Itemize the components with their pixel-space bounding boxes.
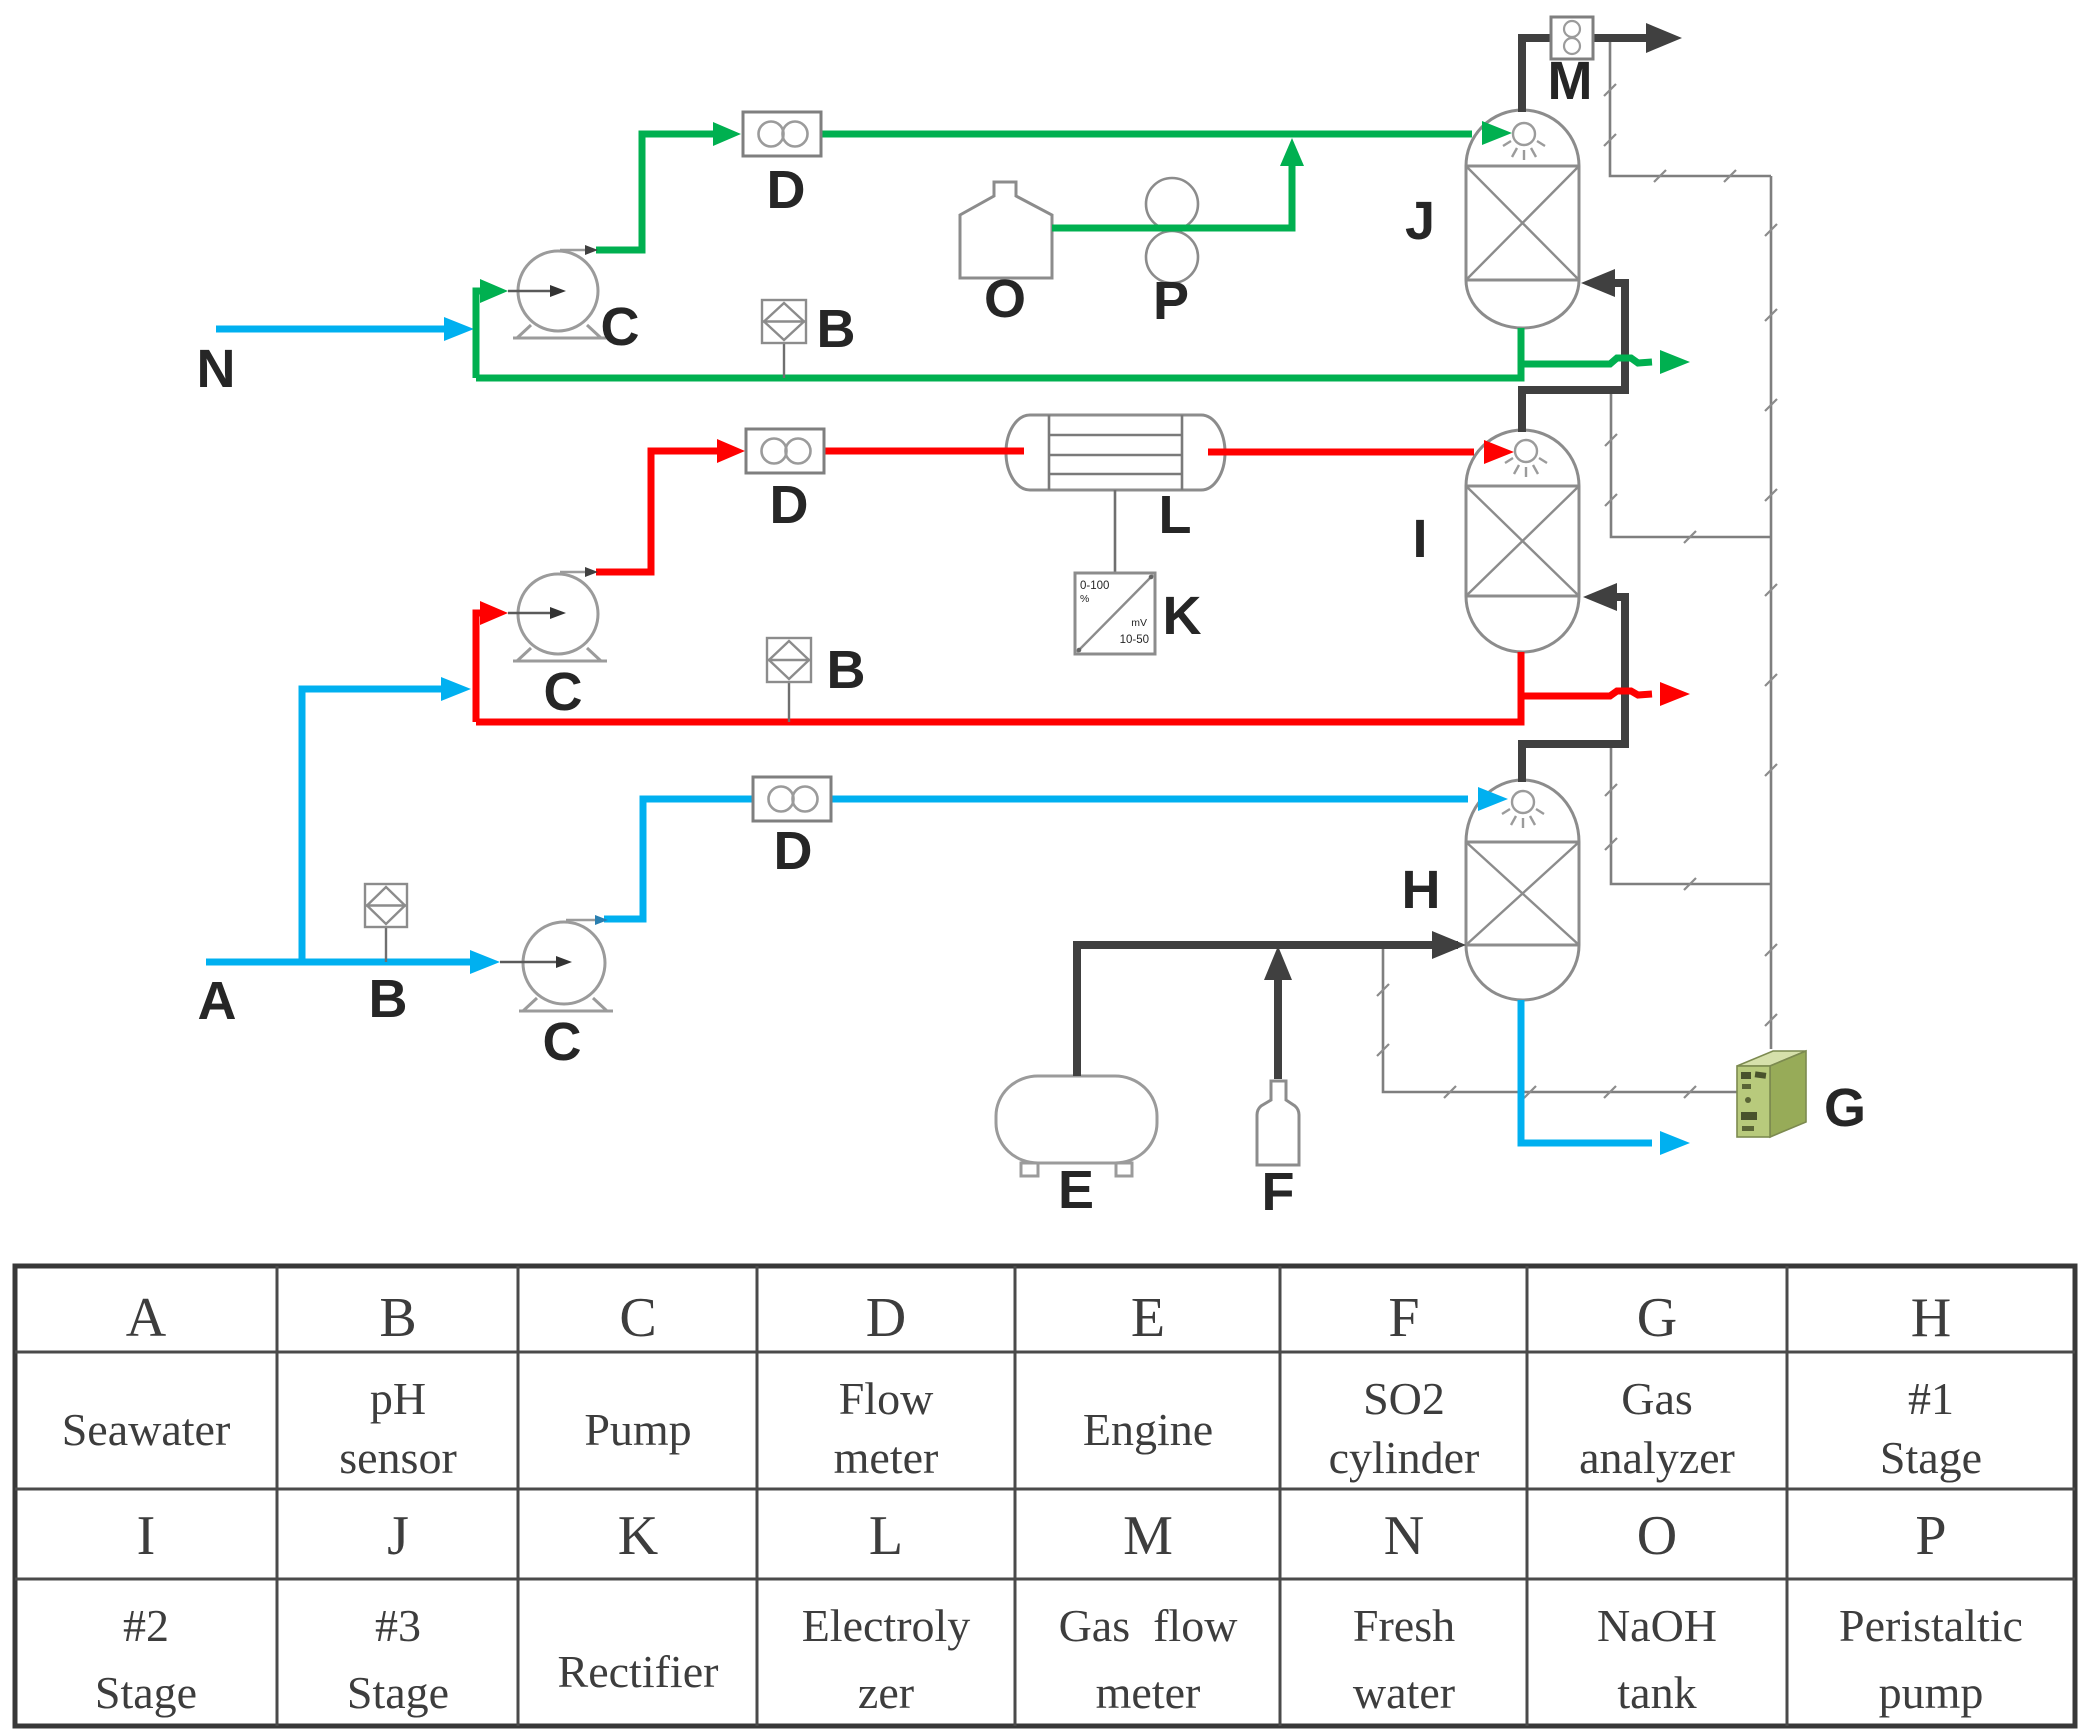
svg-text:#2: #2 (123, 1600, 169, 1651)
SO2 feed riser from F (1274, 972, 1282, 1079)
spray nozzle in H (1502, 791, 1544, 828)
svg-text:N: N (197, 339, 236, 399)
engine E (996, 1076, 1157, 1176)
stage column H (#1 stage scrubber) (1466, 780, 1579, 1000)
pH sensor B (green loop) (762, 300, 806, 378)
svg-text:sensor: sensor (339, 1432, 457, 1483)
NaOH tank O (960, 182, 1052, 278)
svg-text:water: water (1353, 1667, 1455, 1718)
svg-text:J: J (1405, 191, 1435, 251)
red loop: pump discharge via flow meter D and electrolyzer L to column I (596, 451, 1474, 572)
svg-text:C: C (619, 1287, 656, 1349)
pH sensor B (seawater feed) (365, 884, 407, 962)
svg-text:cylinder: cylinder (1329, 1432, 1480, 1483)
arrow gas into H (1432, 931, 1466, 959)
seawater branch riser to stage 2 pump (blue) (302, 689, 461, 962)
svg-text:Stage: Stage (95, 1667, 197, 1718)
svg-text:Stage: Stage (1880, 1432, 1982, 1483)
legend table (15, 1266, 2075, 1726)
svg-text:SO2: SO2 (1363, 1373, 1445, 1424)
spray nozzle in J (1503, 123, 1545, 160)
svg-text:D: D (866, 1287, 906, 1349)
peristaltic pump P (1146, 178, 1198, 283)
svg-text:F: F (1388, 1287, 1419, 1349)
svg-text:H: H (1402, 860, 1441, 920)
svg-text:Peristaltic: Peristaltic (1839, 1600, 2023, 1651)
svg-text:#3: #3 (375, 1600, 421, 1651)
stack line J top through gas flow meter M (1522, 38, 1650, 112)
red treated water outlet (1521, 691, 1652, 696)
green loop: pump suction riser (476, 291, 482, 378)
svg-text:Seawater: Seawater (62, 1404, 231, 1455)
wire from electrolyzer L to rectifier K (1114, 490, 1117, 573)
svg-text:B: B (817, 299, 856, 359)
seawater feed A (blue) (206, 959, 490, 966)
pump C (stage 1, blue loop) (519, 922, 613, 1011)
svg-text:K: K (1163, 586, 1202, 646)
svg-text:C: C (544, 662, 583, 722)
tick marks on sample lines (1377, 84, 1777, 1098)
svg-text:C: C (601, 297, 640, 357)
svg-text:0-100: 0-100 (1080, 580, 1109, 592)
red loop: column I bottom return (476, 652, 1521, 722)
svg-text:%: % (1080, 593, 1089, 605)
svg-text:A: A (198, 971, 237, 1031)
svg-text:I: I (1412, 509, 1427, 569)
svg-text:meter: meter (834, 1432, 939, 1483)
flow meter D (green loop) (743, 112, 821, 156)
svg-text:G: G (1637, 1287, 1677, 1349)
svg-text:Flow: Flow (839, 1373, 934, 1424)
svg-text:B: B (379, 1287, 416, 1349)
fresh water feed N (blue) (216, 326, 464, 333)
svg-text:O: O (984, 269, 1026, 329)
sample line from M outlet to analyzer header (1610, 40, 1771, 176)
arrow stack outlet (1646, 23, 1682, 53)
svg-text:B: B (827, 640, 866, 700)
blue column H bottom outlet (1521, 1000, 1652, 1143)
svg-text:pump: pump (1879, 1667, 1984, 1718)
svg-text:Fresh: Fresh (1353, 1600, 1455, 1651)
svg-text:E: E (1058, 1160, 1094, 1220)
green treated water outlet (1521, 358, 1652, 364)
pump C (stage 2, red loop) (513, 574, 607, 661)
svg-text:M: M (1123, 1505, 1173, 1567)
gas flow meter M (1551, 17, 1593, 59)
svg-text:analyzer: analyzer (1579, 1432, 1735, 1483)
red loop: pump suction riser (476, 613, 482, 722)
green loop: pump discharge to flow meter D and column J (596, 134, 1472, 250)
svg-text:P: P (1915, 1505, 1946, 1567)
SO2 cylinder F (1257, 1081, 1299, 1165)
sample line from J gas inlet corner (1611, 393, 1771, 537)
svg-text:zer: zer (858, 1667, 914, 1718)
stage column I (#2 stage scrubber) (1466, 430, 1579, 652)
blue loop: pump discharge via flow meter D to column H (604, 799, 1468, 919)
flue gas line from engine E and cylinder F to column H (1077, 945, 1458, 1076)
arrow gas into J (1581, 269, 1615, 297)
svg-text:D: D (770, 475, 809, 535)
svg-text:O: O (1637, 1505, 1677, 1567)
svg-text:pH: pH (370, 1373, 426, 1424)
svg-text:Electroly: Electroly (802, 1600, 971, 1651)
rectifier K (1075, 573, 1155, 654)
svg-text:NaOH: NaOH (1597, 1600, 1717, 1651)
svg-text:#1: #1 (1908, 1373, 1954, 1424)
svg-text:F: F (1262, 1162, 1295, 1222)
svg-text:B: B (369, 969, 408, 1029)
green NaOH dosing line from O through P (1052, 150, 1292, 228)
green loop: column J bottom return (476, 328, 1521, 378)
sample line from I gas inlet corner (1611, 745, 1771, 884)
svg-text:I: I (137, 1505, 156, 1567)
spray nozzle in I (1505, 440, 1547, 477)
stage column J (#3 stage scrubber) (1466, 110, 1579, 328)
flow meter D (blue loop) (753, 777, 831, 821)
diagram letter labels (197, 51, 1867, 1222)
svg-text:10-50: 10-50 (1120, 634, 1149, 646)
svg-text:N: N (1384, 1505, 1424, 1567)
gas analyzer G (1737, 1051, 1806, 1137)
svg-text:tank: tank (1617, 1667, 1696, 1718)
svg-text:D: D (774, 821, 813, 881)
svg-text:Pump: Pump (584, 1404, 691, 1455)
gas line I top to J inlet (1522, 283, 1625, 432)
pump C (stage 3, green loop) (513, 251, 607, 338)
gas line H top to I inlet (1522, 597, 1625, 782)
svg-text:A: A (126, 1287, 167, 1349)
sample line from engine gas line to analyzer G (1383, 947, 1737, 1092)
svg-text:L: L (869, 1505, 903, 1567)
svg-text:M: M (1548, 51, 1593, 111)
svg-text:Stage: Stage (347, 1667, 449, 1718)
svg-text:H: H (1911, 1287, 1951, 1349)
svg-text:P: P (1153, 271, 1189, 331)
svg-text:meter: meter (1096, 1667, 1201, 1718)
arrow gas into I (1583, 583, 1617, 611)
flow meter D (red loop) (746, 429, 824, 473)
svg-text:Gas flow: Gas flow (1059, 1600, 1239, 1651)
pump discharge stubs (560, 250, 598, 920)
svg-text:J: J (387, 1505, 409, 1567)
pH sensor B (red loop) (767, 638, 811, 722)
svg-text:G: G (1824, 1078, 1866, 1138)
arrow SO2 joins gas line (1264, 946, 1292, 980)
svg-text:E: E (1131, 1287, 1165, 1349)
pump shafts and suction arrows (500, 291, 562, 962)
electrolyzer L (1006, 415, 1225, 490)
svg-text:L: L (1159, 485, 1192, 545)
svg-text:Gas: Gas (1621, 1373, 1693, 1424)
svg-text:K: K (618, 1505, 658, 1567)
svg-text:mV: mV (1131, 617, 1147, 629)
svg-text:C: C (543, 1012, 582, 1072)
svg-text:D: D (767, 160, 806, 220)
analyzer header line (right vertical) (1770, 176, 1773, 1049)
svg-text:Rectifier: Rectifier (558, 1646, 719, 1697)
svg-text:Engine: Engine (1083, 1404, 1213, 1455)
